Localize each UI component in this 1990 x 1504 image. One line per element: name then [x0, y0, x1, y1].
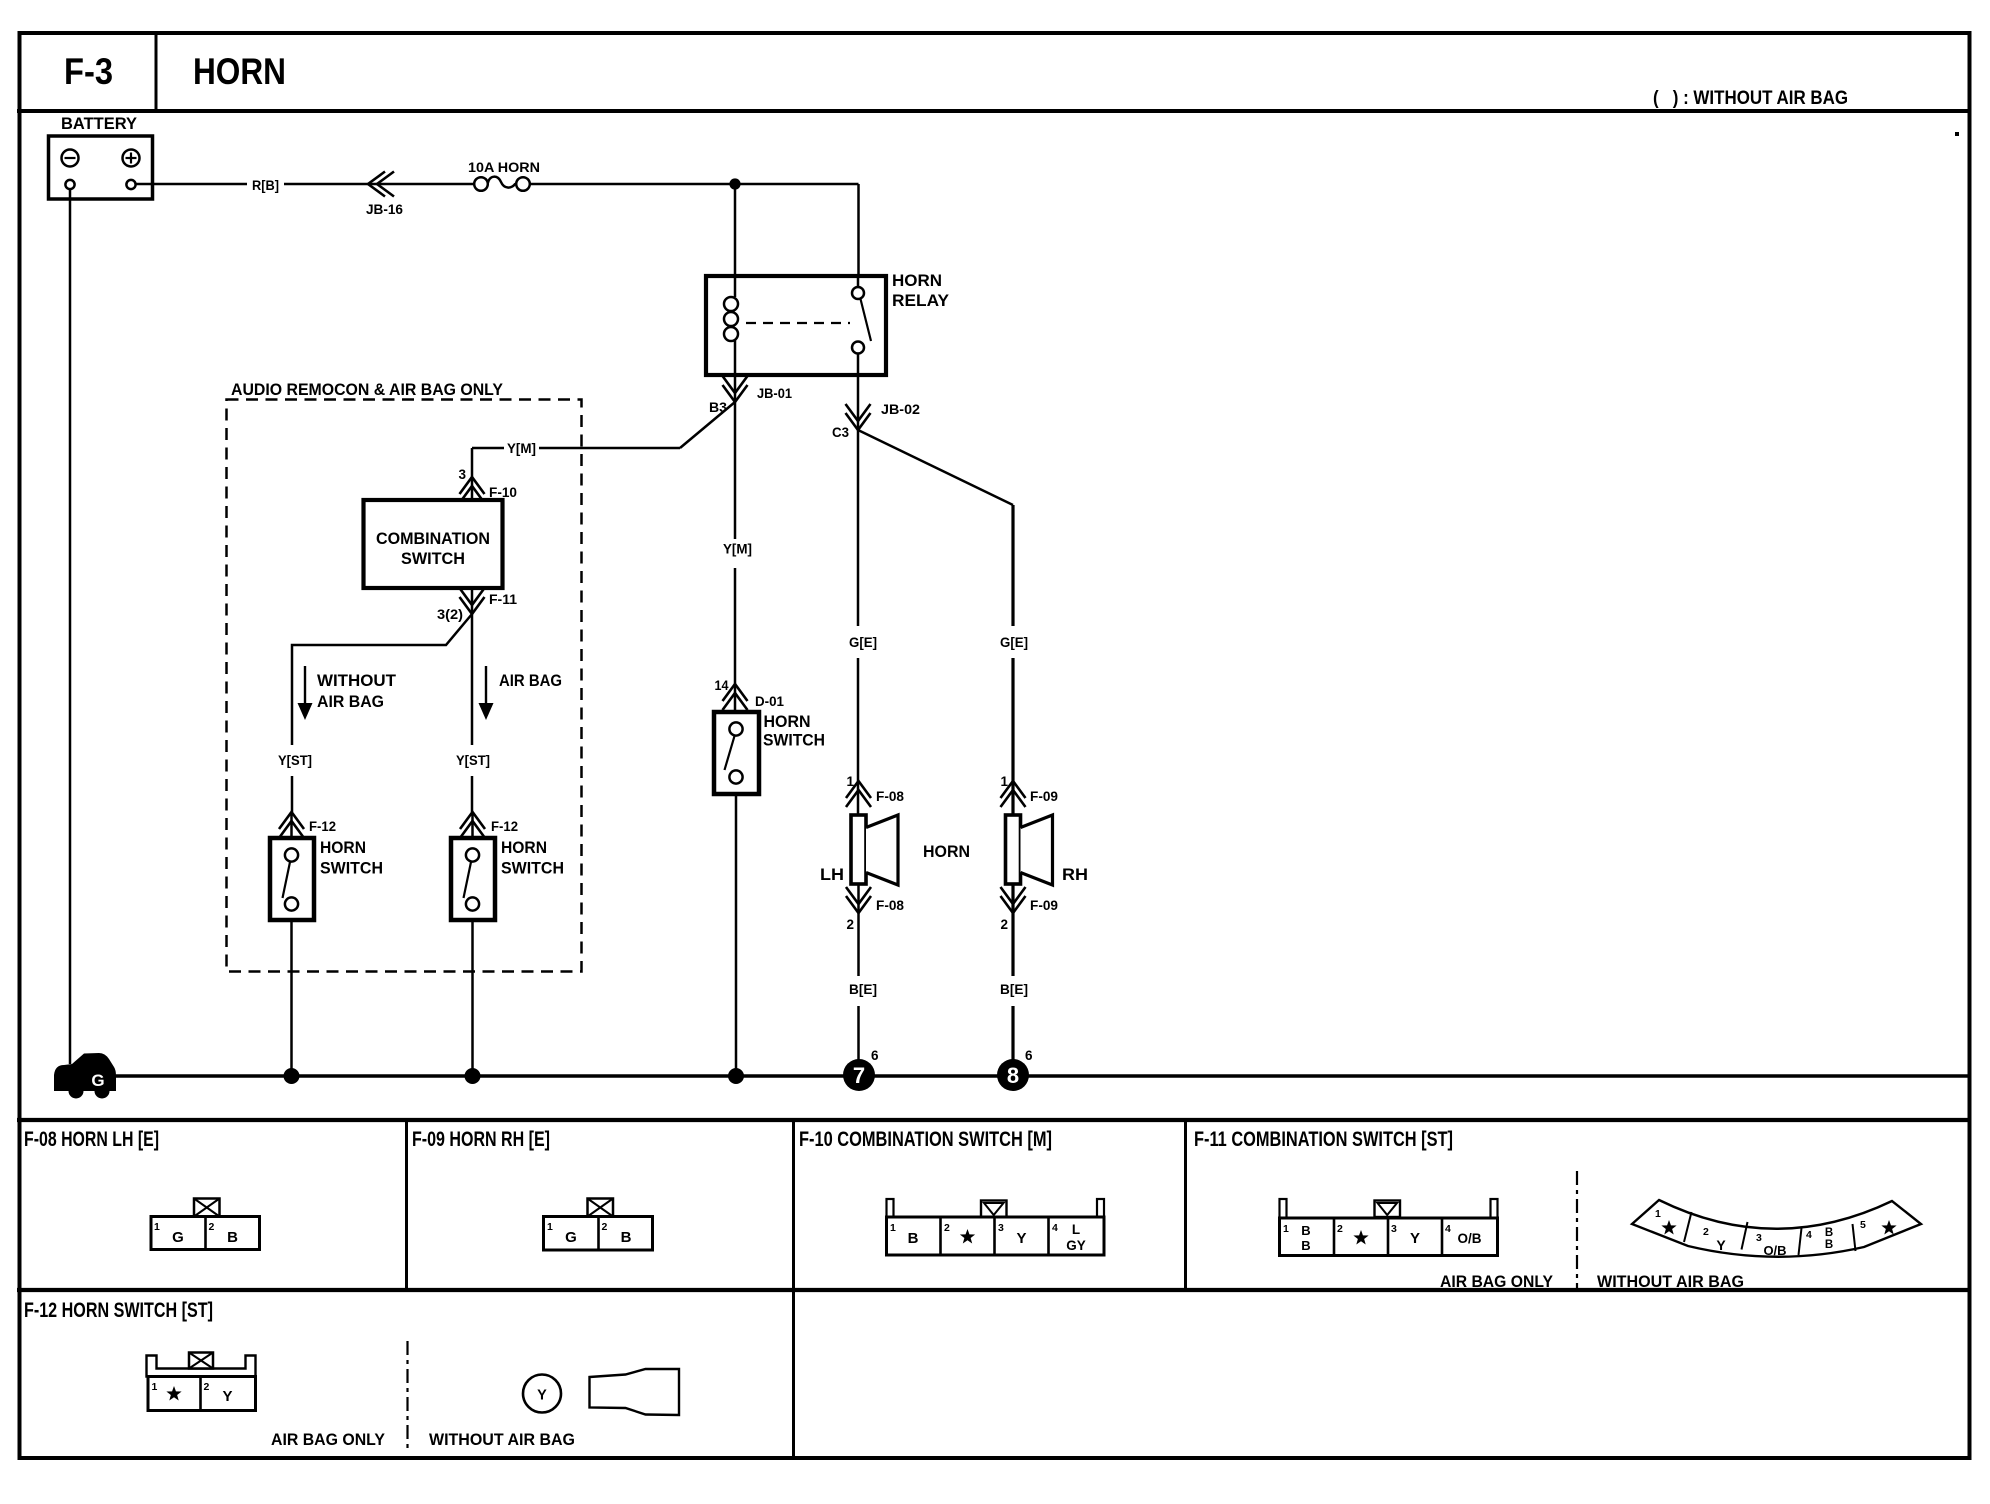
svg-text:SWITCH: SWITCH: [763, 731, 825, 750]
svg-text:B[E]: B[E]: [849, 982, 877, 997]
svg-text:2: 2: [602, 1221, 608, 1233]
connector F-11 arc (without air bag): [1632, 1200, 1921, 1257]
junction node: [728, 1068, 744, 1084]
svg-text:F-12: F-12: [309, 819, 336, 834]
svg-text:L: L: [1072, 1222, 1080, 1237]
connector table frame: [17, 1118, 1970, 1122]
wire code circle Y: [523, 1375, 561, 1413]
svg-text:F-10: F-10: [489, 485, 517, 500]
connector F-10: [460, 477, 485, 503]
svg-text:3: 3: [1756, 1232, 1762, 1244]
combination switch box: [364, 500, 503, 588]
svg-text:F-3: F-3: [64, 51, 113, 92]
ground point 7: [843, 1059, 875, 1091]
svg-text:4: 4: [1806, 1229, 1812, 1241]
relay contact: [857, 276, 860, 375]
svg-text:Y: Y: [1016, 1230, 1026, 1247]
svg-text:G[E]: G[E]: [849, 635, 877, 650]
horn switch box right: [451, 838, 495, 920]
connector F-08 pin1: [846, 781, 871, 807]
connector F-10 detail: [887, 1199, 894, 1217]
svg-text:SWITCH: SWITCH: [401, 549, 465, 568]
svg-text:F-08 HORN LH [E]: F-08 HORN LH [E]: [24, 1128, 159, 1151]
svg-text:JB-02: JB-02: [881, 402, 920, 417]
connector JB-16: [368, 172, 394, 197]
connector F-08 detail: [194, 1199, 220, 1217]
svg-text:AUDIO REMOCON & AIR BAG ONLY: AUDIO REMOCON & AIR BAG ONLY: [231, 380, 504, 399]
arrow without air bag: [304, 666, 306, 706]
svg-text:HORN: HORN: [764, 712, 811, 731]
svg-text:G: G: [172, 1229, 184, 1246]
svg-text:B: B: [908, 1230, 919, 1247]
svg-text:F-11: F-11: [489, 592, 518, 607]
svg-text:F-10 COMBINATION SWITCH [M]: F-10 COMBINATION SWITCH [M]: [799, 1128, 1052, 1151]
svg-text:F-09: F-09: [1030, 789, 1058, 804]
svg-text:3: 3: [998, 1222, 1004, 1234]
svg-text:B: B: [621, 1229, 632, 1246]
svg-text:1: 1: [1655, 1208, 1661, 1220]
relay box: [706, 276, 886, 375]
wire label B[E] RH: [1011, 913, 1014, 1060]
junction node: [284, 1068, 300, 1084]
svg-text:2: 2: [846, 917, 854, 932]
svg-text:2: 2: [204, 1381, 210, 1393]
svg-text:JB-16: JB-16: [366, 202, 403, 217]
connector JB-02: [846, 404, 871, 430]
svg-text:F-12: F-12: [491, 819, 518, 834]
svg-text:F-09: F-09: [1030, 898, 1058, 913]
svg-text:HORN: HORN: [193, 51, 286, 92]
svg-text:2: 2: [1000, 917, 1008, 932]
connector F-08 pin2: [857, 884, 860, 913]
svg-text:AIR BAG: AIR BAG: [499, 671, 562, 690]
wire RH column: [1011, 505, 1014, 815]
svg-text:1: 1: [152, 1381, 158, 1393]
svg-text:G: G: [565, 1229, 577, 1246]
junction node: [465, 1068, 481, 1084]
speck: [1955, 132, 1959, 136]
battery B1: [49, 136, 153, 199]
svg-text:F-11 COMBINATION SWITCH [ST]: F-11 COMBINATION SWITCH [ST]: [1194, 1128, 1453, 1151]
svg-text:WITHOUT: WITHOUT: [317, 671, 397, 690]
wire battery negative down to ground: [69, 190, 72, 1065]
ground bus: [112, 1074, 1969, 1078]
horn RH: [1006, 815, 1021, 884]
connector F-11 detail: [1280, 1199, 1287, 1218]
connector F-11: [471, 588, 474, 614]
svg-text:B: B: [1825, 1239, 1833, 1251]
connector F-12 detail: [147, 1356, 256, 1377]
svg-text:B: B: [1825, 1227, 1833, 1239]
connector D-01: [723, 684, 748, 710]
svg-text:F-08: F-08: [876, 898, 904, 913]
wire junction to relay coil: [734, 184, 737, 276]
svg-text:GY: GY: [1066, 1238, 1086, 1253]
svg-text:D-01: D-01: [755, 694, 784, 709]
wire battery plus to fuse: [136, 183, 474, 186]
svg-text:Y[M]: Y[M]: [507, 441, 536, 456]
svg-text:Y[ST]: Y[ST]: [456, 753, 490, 768]
svg-text:G[E]: G[E]: [1000, 635, 1028, 650]
svg-text:SWITCH: SWITCH: [320, 859, 383, 878]
svg-text:1: 1: [846, 774, 854, 789]
svg-text:LH: LH: [820, 865, 844, 884]
svg-text:F-08: F-08: [876, 789, 904, 804]
svg-text:RELAY: RELAY: [892, 291, 950, 310]
ground point 8: [997, 1059, 1029, 1091]
svg-text:B: B: [1301, 1238, 1310, 1253]
svg-text:B3: B3: [709, 400, 728, 415]
svg-text:10A HORN: 10A HORN: [468, 160, 540, 175]
svg-text:2: 2: [1703, 1226, 1709, 1238]
svg-text:4: 4: [1052, 1222, 1058, 1234]
wire F-11 branch left: [292, 614, 472, 812]
horn switch box left: [270, 838, 314, 920]
svg-text:RH: RH: [1062, 865, 1088, 884]
svg-text:1: 1: [1283, 1223, 1289, 1235]
svg-text:1: 1: [890, 1222, 896, 1234]
connector F-09 pin2: [1011, 884, 1014, 913]
svg-text:SWITCH: SWITCH: [501, 859, 564, 878]
svg-text:B: B: [1301, 1223, 1310, 1238]
svg-text:Y: Y: [1410, 1230, 1420, 1247]
svg-text:1: 1: [154, 1221, 160, 1233]
svg-text:4: 4: [1445, 1223, 1451, 1235]
svg-text:O/B: O/B: [1457, 1231, 1481, 1246]
svg-text:6: 6: [1025, 1048, 1033, 1063]
connector JB-01: [723, 376, 748, 402]
svg-text:HORN: HORN: [892, 271, 942, 290]
horn switch box middle: [714, 712, 759, 794]
svg-text:COMBINATION: COMBINATION: [376, 529, 490, 548]
title row bottom border: [17, 109, 1970, 113]
svg-text:AIR BAG ONLY: AIR BAG ONLY: [1440, 1272, 1554, 1291]
svg-text:3(2): 3(2): [437, 607, 463, 622]
svg-text:2: 2: [1337, 1223, 1343, 1235]
svg-text:B[E]: B[E]: [1000, 982, 1028, 997]
wire Y[M] horizontal to combination switch: [472, 402, 735, 477]
svg-text:7: 7: [853, 1063, 865, 1088]
wire relay coil out: [734, 375, 737, 402]
svg-text:3: 3: [458, 467, 466, 482]
svg-text:2: 2: [944, 1222, 950, 1234]
svg-text:5: 5: [1860, 1219, 1866, 1231]
wire relay contact out: [857, 375, 860, 430]
wire fuse to relay: [530, 184, 859, 276]
relay coil: [734, 276, 737, 297]
svg-text:8: 8: [1007, 1063, 1019, 1088]
svg-text:BATTERY: BATTERY: [61, 114, 138, 133]
wire F-11 branch down: [471, 614, 474, 812]
horn pad symbol: [590, 1369, 680, 1415]
arrow air bag: [485, 666, 487, 706]
svg-text:6: 6: [871, 1048, 879, 1063]
connector F-12 left: [279, 812, 304, 838]
svg-text:3: 3: [1391, 1223, 1397, 1235]
svg-text:HORN: HORN: [923, 842, 970, 861]
svg-text:C3: C3: [832, 425, 849, 440]
junction node: [729, 178, 740, 189]
title divider: [155, 33, 158, 111]
svg-text:( ) : WITHOUT AIR BAG: ( ) : WITHOUT AIR BAG: [1653, 87, 1848, 109]
svg-text:WITHOUT AIR BAG: WITHOUT AIR BAG: [1597, 1272, 1744, 1291]
relay dashed link: [746, 322, 850, 324]
svg-text:1: 1: [547, 1221, 553, 1233]
svg-text:F-09 HORN RH [E]: F-09 HORN RH [E]: [412, 1128, 550, 1151]
svg-text:HORN: HORN: [320, 838, 366, 857]
svg-text:JB-01: JB-01: [757, 386, 792, 401]
svg-text:14: 14: [715, 678, 729, 693]
wire middle column Y[M] down: [734, 402, 737, 712]
horn LH: [851, 815, 866, 884]
svg-text:B: B: [227, 1229, 238, 1246]
wire LH column: [857, 430, 860, 815]
svg-text:G: G: [91, 1071, 104, 1090]
svg-text:Y: Y: [537, 1388, 547, 1404]
svg-text:AIR BAG ONLY: AIR BAG ONLY: [271, 1430, 386, 1449]
connector F-09 detail: [588, 1199, 614, 1217]
svg-text:Y: Y: [1716, 1237, 1726, 1253]
ground body symbol G: [54, 1053, 116, 1091]
connector F-09 pin1: [1001, 781, 1026, 807]
svg-text:Y[ST]: Y[ST]: [278, 753, 312, 768]
svg-text:HORN: HORN: [501, 838, 547, 857]
svg-text:2: 2: [209, 1221, 215, 1233]
wire label B[E] LH: [857, 913, 860, 1060]
svg-text:O/B: O/B: [1763, 1243, 1786, 1258]
svg-text:R[B]: R[B]: [252, 178, 279, 193]
svg-text:Y[M]: Y[M]: [723, 542, 752, 557]
wire C3 diagonal to RH column: [858, 430, 1013, 505]
svg-text:F-12 HORN SWITCH [ST]: F-12 HORN SWITCH [ST]: [24, 1299, 213, 1322]
svg-text:Y: Y: [222, 1388, 232, 1405]
svg-text:AIR BAG: AIR BAG: [317, 692, 384, 711]
connector F-12 right: [460, 812, 485, 838]
svg-text:WITHOUT AIR BAG: WITHOUT AIR BAG: [429, 1430, 575, 1449]
svg-text:1: 1: [1000, 774, 1008, 789]
